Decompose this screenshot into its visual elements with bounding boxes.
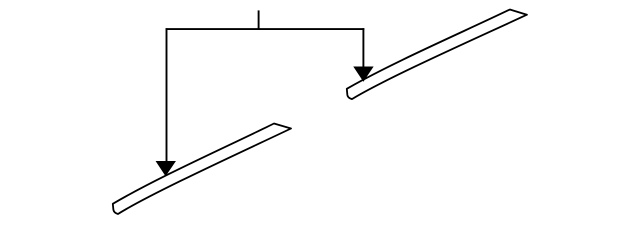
leader line right <box>362 28 364 68</box>
arrowhead right <box>354 67 373 81</box>
leader line left <box>166 28 168 163</box>
wiper blade right (upper) <box>347 8 527 101</box>
wiper blade left (lower) <box>113 124 291 215</box>
arrowhead left <box>157 162 176 176</box>
callout bracket (horizontal) <box>166 28 365 30</box>
callout tick <box>258 10 260 29</box>
